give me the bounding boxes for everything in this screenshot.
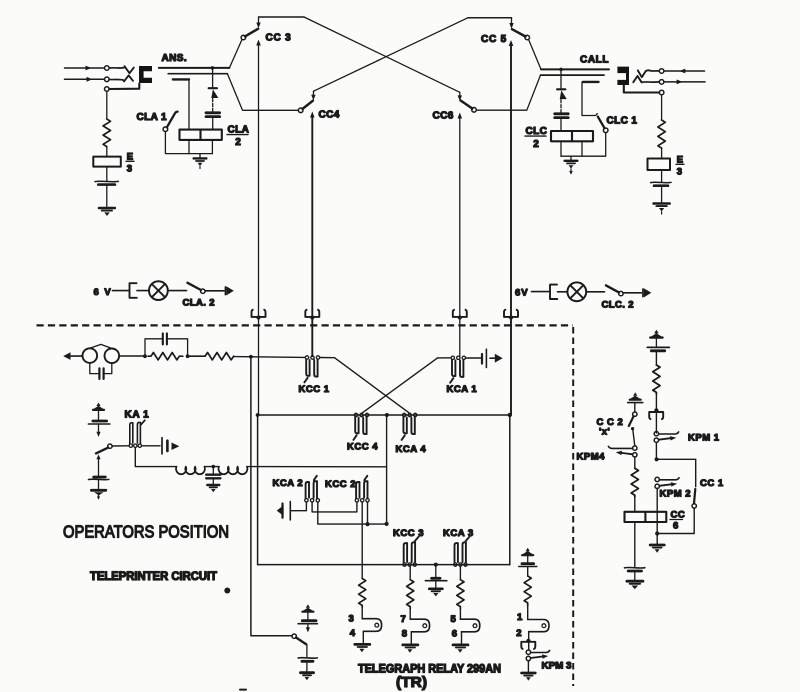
wire KCC3 down (409, 567, 411, 580)
capacitor filter to ground (212, 467, 214, 474)
wire CC6 circle to CALL ring line (476, 75, 540, 110)
battery under switch (298, 657, 317, 660)
ground CC coil (627, 580, 643, 583)
node ring circle (659, 80, 664, 85)
svg-text:CLA: CLA (228, 125, 250, 136)
resistor CC coil branch (631, 468, 638, 497)
wire lamp to switch contact (168, 290, 187, 292)
wire box to battery (106, 167, 108, 181)
relay coil CC/6 (625, 512, 667, 522)
battery CC coil (625, 566, 645, 569)
svg-text:CLC. 2: CLC. 2 (602, 300, 635, 311)
ground CLA coil (199, 154, 201, 158)
arrow to battery left (225, 287, 227, 295)
switch CC5 blade (512, 29, 526, 36)
plug bracket on CC5 wire (504, 310, 518, 317)
crossover diagonal CC4 to top-right bar (314, 18, 468, 91)
wire drop to bottom switch (251, 357, 292, 636)
switch KPM3 blade with arrow (531, 657, 543, 659)
pin 5 stub with curl (460, 619, 479, 632)
plug body CALL (617, 67, 629, 85)
long wire CC6 down with up arrow (459, 118, 461, 357)
wire battery to ground (661, 186, 663, 203)
long wire CC4 down with up arrow (311, 117, 313, 357)
svg-text:CLA 1: CLA 1 (137, 112, 168, 123)
tick with arrow to CC4 hinge (312, 91, 314, 96)
lamp CLC (567, 282, 586, 301)
wire sleeve down (106, 91, 108, 119)
battery bracket right (550, 285, 557, 299)
svg-text:KPM 1: KPM 1 (688, 433, 720, 444)
inductor coil 2 (219, 467, 248, 475)
svg-text:7: 7 (401, 614, 406, 625)
ground mid-bottom (429, 587, 442, 590)
retard coil box E3 left (93, 157, 121, 167)
svg-text:4: 4 (350, 628, 356, 639)
node tip circle (105, 66, 110, 71)
wire KPM4 down to resistor (634, 457, 636, 468)
SECTION: CC switches crossover (227, 17, 541, 415)
junction ground node (655, 531, 659, 535)
switch KPM2 blade with arrow (659, 484, 671, 486)
receiver earpiece left (83, 348, 98, 363)
svg-text:KPM4: KPM4 (577, 452, 606, 463)
diode CLA rectifier (209, 87, 217, 89)
switch CLA1 pivot circle (163, 127, 168, 132)
junction CC1 branch (655, 457, 659, 461)
junction battery tap on bottom bus (434, 563, 438, 567)
switch KPM2 upper circle (655, 477, 659, 481)
switch CC2x pivot circle (633, 412, 637, 416)
wire battery to KCA2 (290, 502, 306, 511)
switch CC6 contact circle (472, 108, 477, 113)
switch KA1 blade (96, 448, 108, 454)
wire line-in top (65, 67, 105, 69)
svg-text:KPM 3: KPM 3 (542, 661, 572, 672)
wire sleeve to plug (109, 84, 139, 90)
switch CC3 blade (245, 29, 258, 37)
tick with arrow to CC6 hinge (459, 92, 461, 96)
jack spring lower (124, 75, 133, 81)
wire KCC1 to diagonal (320, 357, 335, 359)
node ring circle (105, 77, 110, 82)
svg-text:2: 2 (533, 139, 539, 150)
wire coil right lead down (211, 140, 213, 154)
plug body ANS (139, 66, 152, 83)
switch KPM2 lower circle (655, 484, 659, 488)
capacitor across receiver (90, 363, 98, 374)
diode CLC rectifier (557, 88, 565, 90)
capacitor across CLA coil (206, 111, 220, 114)
svg-text:CLC 1: CLC 1 (607, 116, 638, 127)
junction riser corner (385, 522, 389, 526)
svg-text:3: 3 (127, 164, 132, 175)
svg-text:CLC: CLC (526, 126, 548, 137)
battery with arrow left of KCA2 (277, 505, 284, 516)
jack spring upper (638, 70, 650, 77)
wire 6V to battery bracket (532, 291, 550, 293)
svg-text:TELEGRAPH RELAY 299AN: TELEGRAPH RELAY 299AN (358, 664, 501, 676)
switch KPM1 fixed contact (659, 432, 679, 434)
wire pin4 to ground (362, 631, 364, 643)
wire pivot to KA1 contact (112, 445, 129, 447)
switch KPM1 upper circle (654, 432, 658, 436)
junction on tip line (211, 66, 215, 70)
resistor right panel main (653, 365, 660, 394)
wire 6V to battery bracket (113, 290, 130, 292)
wire battery to ground (98, 480, 100, 489)
wire sleeve stub down to coil (188, 79, 190, 129)
relay contact KCC4 (354, 413, 357, 416)
svg-text:CC 3: CC 3 (266, 33, 292, 44)
svg-text:CLA. 2: CLA. 2 (183, 298, 216, 309)
wire plug tip line (541, 68, 609, 70)
resistor series line (205, 353, 234, 360)
wire coil left lead down (188, 140, 190, 154)
wire KA1 mid down to coils (135, 448, 176, 467)
battery feed top of CC2 branch (630, 392, 641, 399)
wire CC1 pivot down to gnd wire (657, 508, 694, 533)
pin 7 stub with curl (410, 619, 429, 632)
svg-text:'x': 'x' (599, 427, 610, 438)
junction box top-left (256, 413, 260, 417)
SECTION: relay unit box (256, 349, 512, 596)
relay contact KA1 (129, 444, 132, 447)
wire battery to CC2 switch (634, 403, 636, 412)
wire plug ring line (168, 73, 227, 75)
ground CLC coil (570, 156, 572, 160)
relay contact KCC1 (305, 356, 308, 359)
SECTION: ANS jack + CLA relay (137, 53, 250, 169)
wire top-left bar (259, 16, 305, 18)
wire resistor to stub (459, 609, 461, 619)
jack spring lower (633, 76, 641, 82)
wire KA1 to battery arrow (142, 445, 160, 447)
ground right E3 (654, 202, 670, 205)
jack spring upper (125, 66, 134, 73)
svg-text:3: 3 (677, 167, 682, 178)
wire plug ring line (541, 74, 605, 76)
SECTION: CALL jack + CLC relay (525, 55, 637, 175)
arrow to line left (63, 352, 70, 360)
svg-text:KCC 3: KCC 3 (393, 528, 424, 539)
crossover diagonal KCC1 to KCA4 (335, 358, 410, 414)
svg-text:3: 3 (349, 614, 354, 625)
relay contact KCA3 (454, 563, 457, 566)
svg-text:CC 1: CC 1 (700, 478, 724, 489)
svg-text:5: 5 (451, 614, 457, 625)
arrow on bottom line-in wire (87, 77, 93, 82)
svg-text:1: 1 (517, 612, 523, 623)
boundary dashed horizontal (37, 324, 573, 326)
relay coil CLA/2 (180, 130, 222, 140)
wire resistor to stub (361, 608, 363, 619)
svg-text:8: 8 (402, 628, 407, 639)
switch CLC1 pivot circle (603, 128, 608, 133)
wire KPM3 to ground (527, 661, 529, 672)
wire ANS ring line to CC4 (227, 74, 298, 111)
arrow under blade (96, 454, 100, 459)
long wire CC3 down with up arrow (258, 45, 260, 416)
svg-text:OPERATORS POSITION: OPERATORS POSITION (63, 522, 229, 542)
wire battery to ground (634, 571, 636, 580)
wire plug sleeve stub (173, 78, 189, 80)
switch CC4 blade (303, 101, 313, 109)
wire CLA1 pivot down (165, 132, 212, 154)
wire capacitor to coil (560, 119, 562, 132)
boundary dashed vertical (572, 327, 574, 686)
wire pin6 to ground (461, 632, 463, 644)
junction RC left (143, 354, 147, 358)
switch KPM4 fixed contact (608, 446, 632, 448)
receiver earpiece right (105, 349, 120, 364)
wire coils to relay box vertical (247, 466, 386, 468)
wire junction to ground (656, 534, 658, 544)
switch CC4 contact circle (298, 108, 303, 113)
junction on tip line (559, 68, 563, 72)
ground filter (207, 484, 219, 486)
svg-text:KCC 1: KCC 1 (299, 384, 330, 395)
switch CLA2 blade (188, 283, 201, 290)
wire resistor to coil box (634, 497, 636, 512)
spot mark (224, 588, 230, 594)
switch KPM1 blade with arrow (659, 438, 671, 440)
resistor TR winding 7-8 (407, 580, 414, 609)
wire KPM2 down through coil (656, 489, 658, 534)
wire coil down to battery (634, 522, 636, 567)
plug bracket inverted KPM1 (649, 412, 663, 419)
ground pin 8 (403, 644, 418, 647)
relay contact KCA2 (305, 499, 308, 502)
wire receiver to RC (119, 355, 145, 357)
wire resistor to bracket (655, 394, 657, 433)
plug bracket inverted KPM3 (521, 642, 535, 649)
switch KPM4 blade with arrow (622, 453, 633, 454)
SECTION: boundary dashed lines and plug brackets (37, 310, 574, 686)
svg-text:6 V: 6 V (94, 287, 113, 298)
wire plug tip line (159, 67, 230, 69)
wire box to battery (661, 170, 663, 182)
switch CC5 contact circle (525, 35, 530, 40)
wire spring ends to circles (650, 70, 660, 72)
wire tip line-out with left arrow (664, 70, 705, 72)
capacitor branch over resistor (145, 339, 162, 356)
wire resistor to KCC1 (234, 356, 305, 359)
SECTION: bottom columns (349, 548, 572, 691)
wire coil right lead down (581, 141, 583, 156)
ground pin 4 (355, 643, 370, 646)
wire KCA1 to battery arrow (466, 357, 481, 359)
svg-text:2: 2 (516, 628, 521, 639)
switch CLC2 pivot circle (619, 291, 623, 295)
pin 1 stub with curl (528, 620, 549, 632)
wire pin2 down (528, 632, 530, 650)
switch KPM4 upper circle (633, 446, 637, 450)
SECTION: top-right line connector (617, 67, 705, 214)
svg-text:TELEPRINTER CIRCUIT: TELEPRINTER CIRCUIT (90, 571, 217, 583)
receiver headband (86, 344, 116, 350)
junction above bracket (526, 639, 530, 643)
wire CLC1 pivot down (561, 133, 606, 157)
tick with arrow to CC3 hinge (258, 17, 260, 24)
capacitor across CLC coil (555, 112, 569, 115)
wire resistor to box (106, 147, 108, 157)
plug bracket on CC3 wire (252, 310, 266, 317)
wire resistor to box (661, 148, 663, 158)
wire sleeve down (661, 95, 663, 120)
wire ring line-out with right arrow (664, 81, 705, 83)
svg-text:KCC 2: KCC 2 (325, 479, 356, 490)
resistor right E lead (658, 120, 665, 148)
wire branch to CC1 switch (657, 459, 696, 486)
wire lamp to switch contact (586, 291, 604, 293)
wire RC to series resistor (188, 355, 205, 357)
arrow to battery right (642, 289, 644, 297)
junction filter tap (212, 465, 216, 469)
relay contact KCC3 (403, 563, 406, 566)
wire plug sleeve stub (583, 81, 599, 83)
battery feed top of 1-2 column (522, 548, 533, 555)
junction above bracket (654, 408, 658, 412)
wire KCC2 right down (367, 502, 369, 524)
switch CLA2 pivot circle (201, 289, 205, 293)
junction bus mid (385, 413, 389, 417)
wire resistor to stub (409, 609, 411, 619)
wire pin8 to ground (410, 632, 412, 644)
switch CC3 contact circle (241, 35, 246, 40)
battery feed above bottom-left switch (303, 604, 314, 611)
arrow on top line-in wire (86, 66, 92, 71)
switch bottom-left blade (296, 638, 306, 645)
crossover diagonal KCA1 to KCC4 (362, 358, 438, 413)
svg-text:6: 6 (452, 628, 457, 639)
ground KPM3 (522, 672, 536, 675)
relay coil CLC/2 (551, 131, 593, 141)
node sleeve circle (105, 87, 110, 92)
battery to ground mid-bottom (435, 565, 437, 578)
wire line-in bottom (65, 78, 105, 80)
wire coil left lead down (560, 141, 562, 156)
wire junction down to diode (560, 69, 562, 88)
switch KPM3 lower circle (526, 656, 530, 660)
relay contact KCA1 (451, 356, 454, 359)
ground left E3 (99, 207, 115, 210)
wire CC5 circle to CALL tip line (529, 40, 541, 70)
pin 3 stub with curl (362, 619, 381, 632)
wire sleeve stub down (582, 82, 597, 116)
svg-text:KPM 2: KPM 2 (660, 489, 692, 500)
wire junction down to diode (212, 68, 214, 88)
svg-text:2: 2 (235, 137, 241, 148)
svg-text:KCA 1: KCA 1 (447, 384, 478, 395)
long wire CC5 down with up arrow (510, 45, 512, 415)
plug bracket on CC4 wire (305, 310, 319, 317)
battery bracket left (130, 283, 137, 298)
wire resistor to stub (527, 606, 529, 620)
svg-text:KCA 2: KCA 2 (273, 478, 304, 489)
battery left E3 (95, 180, 118, 183)
inductor coil 1 (176, 467, 205, 475)
svg-text:ANS.: ANS. (162, 53, 188, 64)
bus wire relay box top (258, 414, 510, 416)
wire circle to spring (109, 67, 124, 69)
lamp CLA (149, 281, 168, 300)
switch KPM1 lower circle (654, 438, 658, 442)
switch CC6 blade (461, 101, 473, 109)
wire capacitor to coil (212, 118, 214, 130)
switch bottom-left pivot circle (292, 634, 296, 638)
wire pivot to arrow (205, 290, 224, 292)
svg-text:CC4: CC4 (319, 110, 340, 121)
switch KPM4 lower circle (633, 453, 637, 457)
wire CC3 circle to ANS tip line (229, 40, 242, 68)
wire bracket to lamp (137, 290, 149, 292)
retard coil box E3 right (648, 159, 671, 171)
node tip circle (659, 69, 664, 74)
svg-text:CC 5: CC 5 (481, 34, 507, 45)
ground under switch (301, 671, 314, 674)
svg-text:KCA 4: KCA 4 (396, 444, 427, 455)
svg-text:CC6: CC6 (433, 111, 454, 122)
junction RC right (186, 354, 190, 358)
junction KCC2 right on cross wire (365, 522, 369, 526)
wire between coils (205, 466, 219, 468)
wire KCA2 mid to KCC2 left (312, 502, 357, 512)
resistor shunted (148, 353, 183, 360)
resistor TR winding 3-4 (359, 579, 366, 609)
wire pivot to arrow (623, 292, 641, 294)
ground bottom-left (91, 489, 105, 492)
switch KPM2 fixed contact (659, 478, 679, 480)
battery feed above KA1 (93, 403, 104, 410)
wire KCA3 down (459, 567, 461, 580)
switch CLC1 blade (598, 117, 605, 129)
relay contact KCC2 (355, 499, 358, 502)
wire bracket to lamp (558, 291, 568, 293)
resistor left E lead (103, 119, 110, 147)
tick with arrow to CC5 hinge (511, 18, 513, 24)
svg-text:6: 6 (673, 521, 678, 532)
resistor TR winding 5-6 (457, 580, 464, 609)
wire top-right bar (468, 17, 512, 19)
battery feed top right panel (651, 330, 663, 337)
wire blade to battery (306, 645, 308, 657)
svg-text:CALL: CALL (580, 55, 609, 66)
switch KPM3 fixed contact (531, 650, 550, 652)
plug bracket on CC6 wire (453, 310, 467, 317)
crossover diagonal left-top to CC6 (304, 17, 460, 92)
svg-text:KA 1: KA 1 (125, 410, 150, 421)
wire plug sleeve to circle (624, 85, 660, 93)
SECTION: right KPM panel (577, 330, 724, 589)
svg-text:(TR): (TR) (396, 675, 427, 691)
ground KPM2 (650, 544, 664, 547)
resistor TR winding 1-2 (524, 576, 531, 606)
wire contact down to KPM4 (633, 430, 635, 446)
wire battery to ground (106, 185, 108, 207)
bus wire relay box bottom (258, 564, 510, 566)
battery with arrow right of KCA1 (481, 354, 483, 364)
switch CLA1 blade (167, 112, 178, 128)
wire KCC2 mid down to resistor (361, 502, 363, 578)
node sleeve circle (659, 90, 664, 95)
wire relay box right edge (509, 415, 511, 565)
wire battery to ground (306, 662, 308, 672)
wire bus mid down (386, 415, 388, 524)
SECTION: lamp circuits (94, 281, 652, 310)
wire circle to spring lower (109, 78, 123, 81)
wire battery to resistor (655, 351, 657, 365)
